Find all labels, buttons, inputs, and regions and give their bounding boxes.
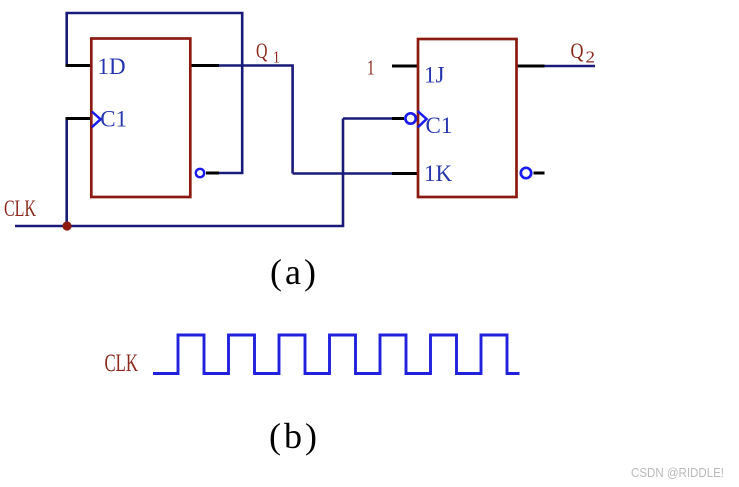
svg-text:CLK: CLK <box>4 196 36 221</box>
svg-text:C1: C1 <box>426 113 453 138</box>
svg-text:2: 2 <box>586 48 596 67</box>
svg-text:CLK: CLK <box>105 350 139 377</box>
svg-text:1K: 1K <box>424 161 453 186</box>
svg-text:(b): (b) <box>269 416 320 456</box>
svg-text:1: 1 <box>367 56 375 80</box>
svg-text:Q: Q <box>571 38 584 63</box>
svg-text:Q: Q <box>256 38 268 63</box>
svg-text:(a): (a) <box>270 252 319 292</box>
svg-text:1J: 1J <box>424 63 445 88</box>
svg-text:1: 1 <box>273 48 280 67</box>
svg-text:1D: 1D <box>98 54 126 79</box>
svg-text:CSDN @RIDDLE!: CSDN @RIDDLE! <box>631 466 724 480</box>
svg-text:C1: C1 <box>100 107 127 132</box>
